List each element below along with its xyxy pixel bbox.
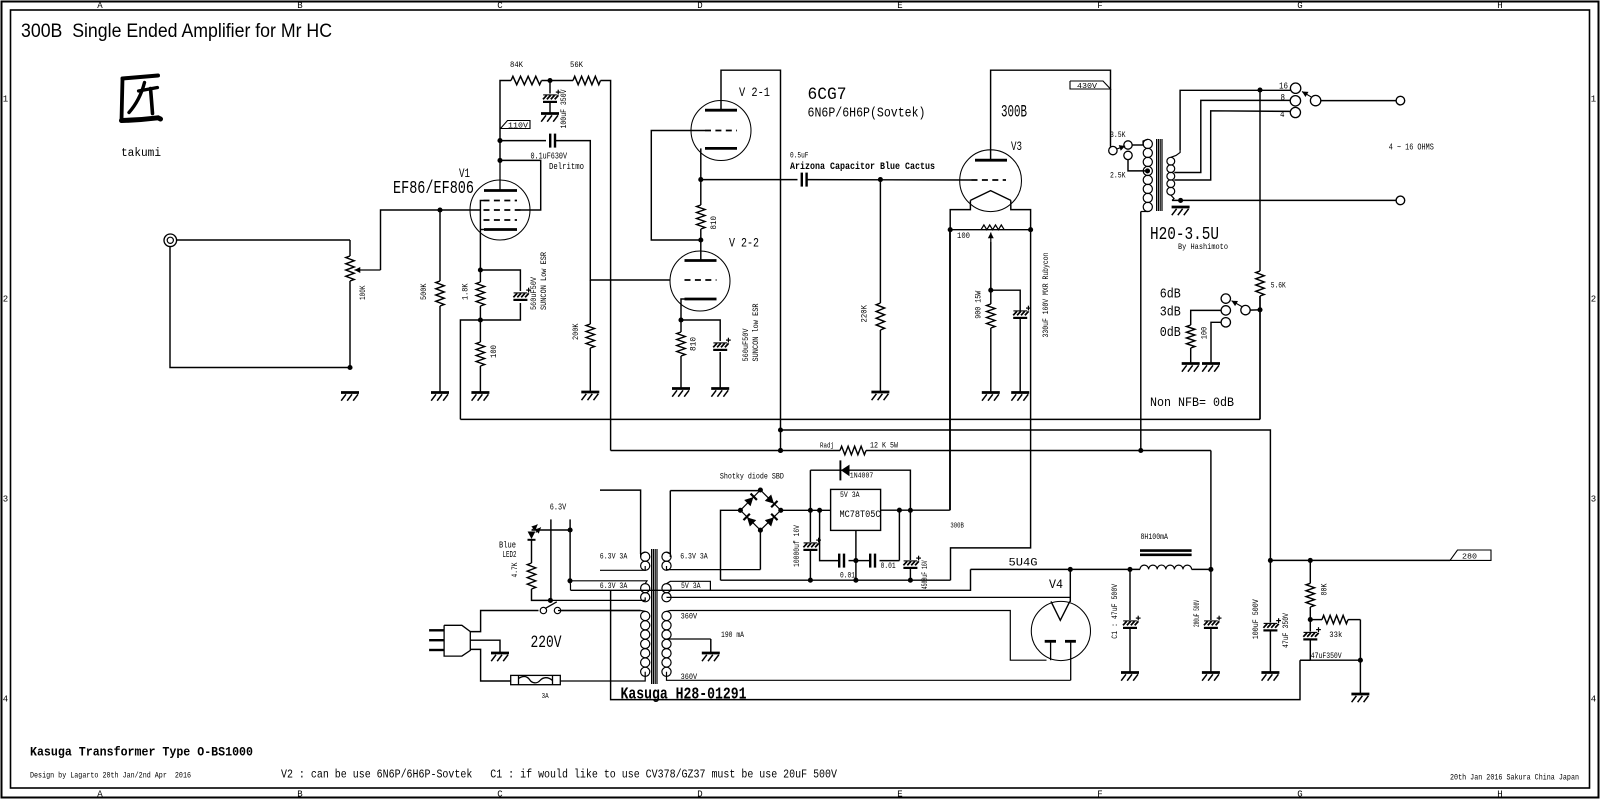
svg-text:100: 100 [1200,327,1210,340]
wire pole to output terminal [1321,100,1396,102]
svg-text:F: F [1097,790,1102,800]
ground input pot [341,393,359,401]
label 6CG7 [808,85,847,105]
node 6.3V LED winding junction [567,578,572,583]
node volume wiper junction [347,207,442,370]
node V2-2 plate junction [698,237,703,242]
svg-text:Delritmo: Delritmo [549,161,584,172]
node LED anode tap [568,527,573,532]
svg-text:4 ~ 16 OHMS: 4 ~ 16 OHMS [1389,142,1434,152]
wire bypass cap row [820,510,900,560]
label 500K [419,283,429,300]
transformer PT winding 220V primary [558,611,650,682]
node V1 cathode top [478,267,483,272]
wire V3 filament right [1011,200,1031,229]
potentiometer 100K volume [346,240,354,368]
resistor 900 15W cathode [987,290,995,392]
label Radj [820,443,834,451]
node 16 tap NFB [1257,87,1262,92]
wire 33k to ground [1359,660,1361,693]
svg-text:100K: 100K [358,285,368,300]
capacitor C1 47uF 500V [1123,569,1141,672]
svg-text:SUNCON Low ESR: SUNCON Low ESR [539,252,549,310]
svg-text:C: C [497,1,503,11]
choke 8H100mA [1140,551,1211,570]
svg-text:560uF50V: 560uF50V [529,276,539,310]
ground HV center tap [702,653,720,661]
bottom note Kasuga transformer type [30,746,253,760]
capacitor 0.01 output [870,554,875,568]
label 4 [1280,110,1285,120]
label 900 15W [974,290,984,319]
svg-text:B: B [297,1,303,11]
switch NFB level select [1221,294,1250,327]
wire V3 filament left [950,200,970,229]
led Blue LED2 [528,525,541,564]
svg-text:47uF350V: 47uF350V [1311,651,1343,661]
node filament rail right [1028,227,1033,232]
tube V2-2 6CG7 lower [670,251,730,311]
label 2.5K [1110,171,1126,181]
label 6dB [1160,286,1181,302]
svg-text:500K: 500K [419,283,429,300]
wire 6.3V winding jog [569,581,572,591]
label 560uF50V V1 [529,276,539,310]
wire V1 g2 jog [500,160,541,210]
ground C1 [1121,673,1139,681]
resistor 100 V1 cathode [476,320,484,393]
label 10000uf 16V [792,524,802,567]
svg-text:2.5K: 2.5K [1110,171,1126,181]
label 8H100mA [1141,534,1169,542]
wire plug neutral [470,649,510,681]
label 4 - 16 OHMS [1389,142,1434,152]
bridge diode top-right [765,494,778,507]
ground 500K [431,393,449,401]
wire 16 ohm tap [1180,90,1290,150]
svg-text:2: 2 [3,295,8,305]
svg-text:100uF 500V: 100uF 500V [1251,599,1261,640]
svg-text:330uF 160V MXR Rubycon: 330uF 160V MXR Rubycon [1041,253,1051,338]
label H20-3.5U [1150,225,1219,245]
svg-text:80K: 80K [1320,583,1330,596]
transformer OPT secondary winding [1167,150,1180,200]
capacitor 330uF 160V MXR Rubycon [1013,306,1031,318]
svg-text:1.8K: 1.8K [461,283,471,300]
svg-text:100uF 350V: 100uF 350V [559,89,569,129]
label V4 [1049,577,1063,592]
ground OPT secondary [1172,207,1190,215]
svg-text:G: G [1297,1,1302,11]
svg-text:V4: V4 [1049,577,1063,592]
svg-text:12 K 5W: 12 K 5W [870,442,898,451]
resistor 5.6K NFB [1256,271,1264,419]
label 12 K 5W [870,442,898,451]
wire 6.3V stub A [550,519,552,600]
tube V3 300B [960,150,1022,212]
svg-text:8: 8 [1281,93,1286,103]
switch speaker tap select [1290,83,1321,118]
capacitor 560uF 50V SUNCON V1 cathode [513,288,531,300]
svg-text:H: H [1497,790,1502,800]
wire NFB box right edge [1259,296,1261,419]
wire 3dB contact [1191,310,1222,325]
svg-text:V 2-2: V 2-2 [729,236,759,251]
svg-text:0.01: 0.01 [840,572,855,581]
label Arizona Capacitor Blue Cactus [790,161,935,173]
bottom note design by [30,773,191,781]
bridge diode bottom-left [743,514,756,527]
svg-text:By Hashimoto: By Hashimoto [1178,242,1228,252]
node 80K bottom [1308,617,1313,622]
capacitor 560uF 50V SUNCON V2-2 cathode [713,338,731,350]
svg-text:2: 2 [1591,295,1596,305]
tube V4 5U4G [1031,601,1090,680]
wire 0dB contact [1211,322,1221,363]
wire LED branch [532,529,571,531]
node 33k 47uF junction [1358,658,1363,663]
label SUNCON low ESR V2-2 [751,304,761,362]
label 810 V2-2 [689,337,699,351]
ground mains earth [491,653,509,661]
label 100 V1 cathode [489,345,499,358]
label 300B tube name [1001,103,1027,123]
wire input to volume pot [177,239,350,241]
svg-text:D: D [697,790,702,800]
svg-text:900 15W: 900 15W [974,290,984,319]
label C1 47uF 500V [1110,583,1120,639]
svg-text:6N6P/6H6P(Sovtek): 6N6P/6H6P(Sovtek) [808,105,926,121]
label 100uF 350V [559,89,569,129]
svg-text:56K: 56K [570,60,584,70]
svg-text:360V: 360V [681,612,698,622]
svg-text:G: G [1297,790,1302,800]
resistor 810 V2-1 cathode [697,180,705,240]
label Delritmo [549,161,584,172]
svg-text:Kasuga Transformer Type O-BS10: Kasuga Transformer Type O-BS1000 [30,746,253,760]
wire 0.1uF to V2 grids [555,141,670,280]
potentiometer 100 hum balance [950,225,1030,230]
label 3.5K [1110,130,1126,140]
label 100 hum pot [957,231,970,241]
wire V2-1 grid bracket [651,131,705,241]
ground 900 15W [982,393,1000,401]
svg-text:100: 100 [489,345,499,358]
transformer PT winding 6.3V W1R [662,552,761,570]
resistor 84K [511,76,542,84]
label 810 V2-1 [709,216,719,230]
svg-text:300B: 300B [1001,103,1027,123]
transformer PT winding 5V W2R [662,581,1070,602]
label 5.6K [1271,281,1287,291]
label 220K [860,304,870,322]
label 360V bottom [681,672,698,682]
ground 100uF [1261,673,1279,681]
transformer PT winding 6.3V W1L [600,552,650,570]
wire 330uF branch [991,290,1020,392]
fuse 3A [511,675,561,684]
node gnd pin bypass [853,558,858,563]
capacitor 0.1uF 630V Delritmo coupling [550,134,555,148]
label 8 [1281,93,1286,103]
svg-text:C1 : 47uF 500V: C1 : 47uF 500V [1110,583,1120,639]
label 6.3V 3A W1R [680,552,708,562]
label 330uF 160V MXR Rubycon [1041,253,1051,338]
wire V2-2 cathode [681,299,685,320]
label MC78T05C [840,510,881,521]
svg-text:Shotky diode SBD: Shotky diode SBD [720,472,784,481]
label 80K [1320,583,1330,596]
label V3 [1011,139,1022,154]
wire B+ line2 [781,430,1271,560]
wire V4 filament to B+ rail [1069,569,1071,602]
wire V2-1 plate to B+ [721,70,781,450]
capacitor 0.5uF Arizona coupling [802,173,807,187]
svg-text:Arizona Capacitor Blue Cactus: Arizona Capacitor Blue Cactus [790,161,935,173]
wire regulator output [881,230,950,511]
wire NFB from 16 tap [1259,90,1261,271]
ground 330uF [1011,393,1029,401]
svg-text:430V: 430V [1077,83,1098,91]
node V1 plate junctions [497,138,502,163]
label 100K [358,285,368,300]
wire plug live [470,611,538,632]
svg-text:6.3V 3A: 6.3V 3A [600,552,628,562]
label 5U4G [1009,558,1038,570]
svg-text:6.3V 3A: 6.3V 3A [680,552,708,562]
wire V2-2 plate [700,240,702,261]
svg-text:F: F [1097,1,1102,11]
svg-text:220V: 220V [531,633,562,653]
svg-text:1N4007: 1N4007 [850,473,874,481]
wire V1 g3 cathode bracket [480,201,484,271]
resistor 1.8K cathode V1 [476,270,484,320]
ground 100 V1 [471,393,489,401]
wire cathode bypass loop [480,270,520,320]
svg-text:6.3V: 6.3V [550,502,567,512]
resistor 100 NFB [1187,325,1195,363]
wire filament supply left [949,230,951,511]
node V1 cathode bottom [478,317,483,322]
svg-text:Blue: Blue [499,541,516,551]
svg-text:V3: V3 [1011,139,1022,154]
label Kasuga H28-01291 [621,685,747,704]
capacitor 4500uF 16V output [903,510,921,580]
node NFB switch pole [1257,307,1262,312]
svg-text:300B Single Ended Amplifier f: 300B Single Ended Amplifier for Mr HC [21,20,332,42]
flag 430V B+ [1070,81,1111,91]
svg-text:E: E [897,1,902,11]
wire B+ rail to choke [971,568,1141,570]
wire 1N4007 left leg [809,470,811,510]
node V2-1 plate B+ line2 [778,427,783,453]
svg-text:4: 4 [3,695,8,705]
transformer OPT primary winding [1141,139,1153,211]
bridge rectifier diamond [740,490,780,530]
svg-text:8H100mA: 8H100mA [1141,534,1169,542]
svg-text:4500uF 16V: 4500uF 16V [921,560,930,589]
wire 6.3V stub B [569,519,571,580]
node secondary ground [1178,198,1183,203]
svg-text:200K: 200K [571,323,581,340]
node bridge corners [738,487,783,532]
svg-text:810: 810 [689,337,699,351]
tube V1 EF86 [470,161,530,240]
svg-text:MC78T05C: MC78T05C [840,510,881,521]
wire V1 plate rail [500,81,511,162]
svg-text:D: D [697,1,702,11]
wire bridge minus [721,510,741,580]
resistor 12K 5W Radj [840,446,866,454]
ground V2-2 bypass [711,389,729,397]
svg-text:Non NFB= 0dB: Non NFB= 0dB [1150,396,1234,410]
svg-text:Kasuga H28-01291: Kasuga H28-01291 [621,685,747,704]
transformer PT winding 6.3V W2L [550,581,649,602]
label By Hashimoto [1178,242,1228,252]
svg-text:takumi: takumi [121,147,161,160]
svg-text:LED2: LED2 [503,550,517,560]
wire switch to primary [561,610,641,612]
node regulator input [808,508,822,513]
label 100 NFB [1200,327,1210,340]
svg-text:6dB: 6dB [1160,286,1181,302]
label Shotky diode SBD [720,472,784,481]
flag 110V plate voltage [501,121,531,131]
wire 47uF to 33k bottom [1300,659,1360,661]
svg-text:A: A [97,790,103,800]
svg-text:33k: 33k [1329,631,1342,640]
wire grid V1 [440,209,480,211]
wire V2-2 bypass loop [681,320,720,389]
wire coupling cap branch [500,140,546,142]
svg-text:10000uf 16V: 10000uf 16V [792,524,802,567]
wire regulator input [781,509,831,511]
ground 33k [1351,694,1369,702]
svg-text:3: 3 [1591,495,1596,505]
svg-text:4: 4 [1280,110,1285,120]
wire filament supply right [951,230,1031,581]
ground 0dB [1202,364,1220,372]
node 220K junction [878,177,883,182]
transformer PT core [652,549,657,684]
svg-text:3A: 3A [542,693,549,701]
label 4500uF 16V [921,560,930,589]
wire V3 plate to OPT [991,70,1111,160]
label 3dB [1160,305,1181,321]
label 33k [1329,631,1342,640]
wire coupling to V3 grid [807,179,972,181]
label 16 [1279,82,1288,92]
node 2.5K tap [1145,168,1150,173]
node B+ 280 junctions [1268,558,1313,563]
title text [21,20,332,42]
label V1 [459,167,470,181]
label 190 mA [721,631,744,640]
node 10000uF bottom [808,578,813,583]
resistor 4.7K LED [527,563,550,600]
label 560uF50V V2-2 [741,328,751,362]
node mains switch LED tap [548,598,553,603]
capacitor 200uF 500V [1204,569,1222,672]
svg-text:84K: 84K [510,60,524,70]
capacitor 100uF 350V decoupling [543,81,561,113]
node regulator output junctions [897,508,913,513]
svg-text:110V: 110V [508,122,529,130]
svg-text:0.5uF: 0.5uF [790,150,809,160]
ground 220K [871,392,889,400]
node hum pot wiper [988,288,993,293]
label EF86/EF806 [393,179,474,199]
svg-text:0.01: 0.01 [881,562,896,571]
label 0.01 input [840,572,855,581]
capacitor 0.01 input [839,554,844,568]
capacitor 100uF 500V [1263,560,1281,672]
svg-text:5V 3A: 5V 3A [681,581,701,591]
svg-text:810: 810 [709,216,719,230]
resistor 220K V3 grid leak [876,180,884,392]
wire plug earth [470,640,500,652]
label 6.3V net [550,502,567,512]
svg-text:H: H [1497,1,1502,11]
svg-text:47uF 350V: 47uF 350V [1281,612,1291,648]
svg-text:3: 3 [3,495,8,505]
takumi kanji logo [122,76,161,121]
ground 100 NFB [1182,364,1200,372]
label 0.01 output [881,562,896,571]
node Radj junctions [778,448,1143,453]
svg-text:C: C [497,790,503,800]
label 0.5uF [790,150,809,160]
wire input return loop [170,247,350,368]
svg-text:100: 100 [957,231,970,241]
label 1.8K [461,283,471,300]
capacitor 10000uF 16V input [803,510,821,580]
resistor 80K divider [1306,560,1314,619]
svg-text:3dB: 3dB [1160,305,1181,321]
label 4.7K [510,562,520,578]
svg-text:EF86/EF806: EF86/EF806 [393,179,474,199]
wire bridge AC1 top [670,489,760,492]
label SUNCON Low ESR V1 [539,252,549,310]
capacitor 47uF350V NFB [1300,620,1321,661]
svg-text:16: 16 [1279,82,1288,92]
svg-text:300B: 300B [950,523,964,531]
label 0.1uF630V [531,151,568,162]
svg-text:3.5K: 3.5K [1110,130,1126,140]
svg-text:220K: 220K [860,304,870,322]
label 6.3V 3A W1L [600,552,628,562]
svg-text:Radj: Radj [820,443,834,451]
label 1N4007 [850,473,874,481]
wire 84K to 56K [542,80,574,82]
wire 1N4007 bypass [810,470,910,510]
svg-text:5.6K: 5.6K [1271,281,1287,291]
wire NFB line1 [460,418,1260,420]
svg-text:V 2-1: V 2-1 [739,85,770,100]
resistor 200K V2 grid leak [586,280,594,392]
tube V2-1 6CG7 upper [691,101,751,161]
wire 2.5K tap [1128,160,1145,171]
wire W1R top lead [669,491,671,554]
terminal output hot [1396,96,1405,105]
label 200uF 500V [1194,600,1202,627]
svg-text:1: 1 [3,95,8,105]
wire bridge AC2 bottom [759,530,761,569]
svg-text:5V 3A: 5V 3A [840,491,860,500]
svg-text:280: 280 [1462,554,1477,562]
node 4500uF bottom [853,578,913,583]
wire regulator gnd pin [855,530,857,580]
